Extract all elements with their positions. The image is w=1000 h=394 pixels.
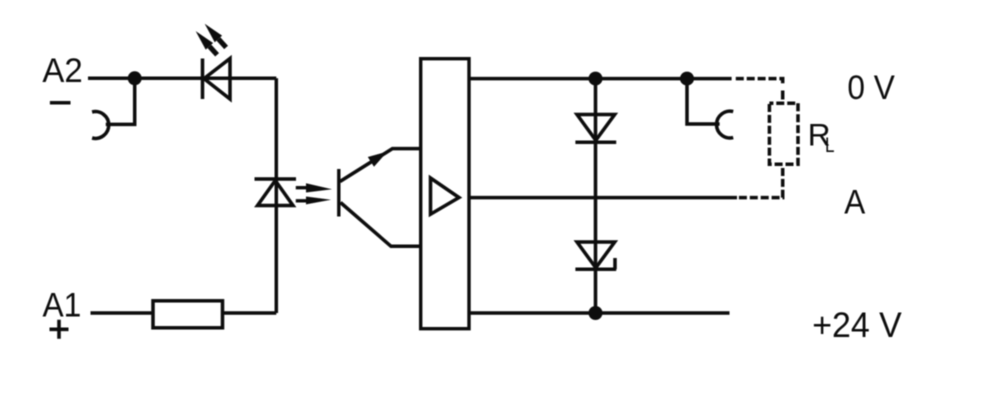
svg-text:+24 V: +24 V [812, 306, 902, 345]
svg-text:L: L [825, 134, 835, 157]
svg-text:A: A [844, 184, 865, 222]
svg-text:A2: A2 [42, 52, 82, 90]
svg-text:A1: A1 [43, 287, 82, 325]
svg-text:0 V: 0 V [847, 69, 894, 107]
